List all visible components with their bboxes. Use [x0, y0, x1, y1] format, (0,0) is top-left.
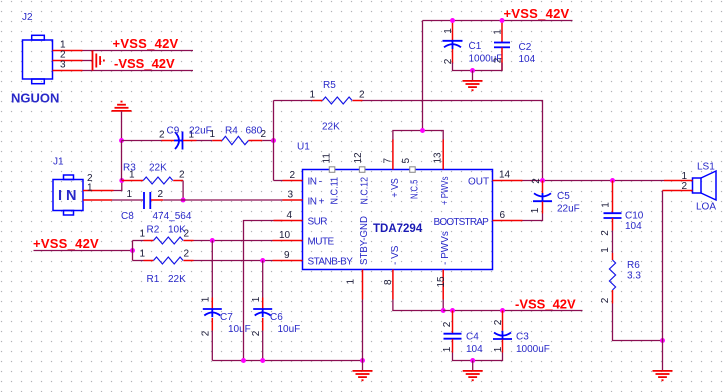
junction input ground node — [119, 138, 124, 143]
svg-text:J2: J2 — [22, 12, 33, 23]
svg-text:1: 1 — [493, 29, 504, 35]
resistor R6 lead 2 — [612, 290, 614, 304]
U1 pin 1 STBY-GND stub — [362, 270, 364, 300]
capacitor C1 lead 2 — [452, 49, 454, 64]
wire +VSS top rail — [423, 20, 573, 22]
svg-text:10: 10 — [279, 230, 291, 241]
U1 pin 15 -PWVs stub — [442, 270, 444, 300]
U1 pin 10 MUTE stub — [273, 240, 303, 242]
junction C4 top — [450, 308, 455, 313]
resistor R5 lead 2 — [353, 100, 363, 102]
svg-text:2: 2 — [201, 330, 212, 336]
wire +VSS down to supply pins — [422, 21, 424, 131]
svg-text:-VSS_42V: -VSS_42V — [114, 56, 175, 71]
speaker LS1 — [693, 171, 717, 200]
svg-text:C1: C1 — [469, 41, 482, 52]
wire R6 to bottom rail — [613, 304, 663, 341]
wire R4 to feedback node — [262, 140, 273, 142]
wire feedback node vertical — [273, 101, 275, 181]
resistor R6 lead 1 — [612, 253, 614, 260]
svg-text:C2: C2 — [519, 42, 532, 53]
svg-text:1: 1 — [210, 129, 216, 140]
capacitor C2 lead 1 — [501, 21, 503, 43]
capacitor C4 plates — [444, 334, 462, 339]
capacitor C10 lead 2 — [612, 218, 614, 231]
svg-text:C5: C5 — [557, 191, 570, 202]
capacitor C2 lead 2 — [501, 48, 503, 71]
wire ground stem C4 C3 — [472, 361, 474, 371]
resistor R4 zigzag — [222, 136, 248, 144]
U1 pin 6 BOOTSTRAP stub — [493, 220, 523, 222]
junction C2 top — [500, 18, 505, 23]
capacitor C3 plates — [493, 331, 512, 339]
resistor R5 zigzag — [323, 97, 353, 104]
LS1 pin 2 — [663, 190, 693, 192]
junction R1 R2 split — [130, 248, 135, 253]
svg-text:OUT: OUT — [468, 177, 489, 188]
resistor R4 lead 1 — [212, 140, 222, 142]
svg-text:IN -: IN - — [308, 177, 322, 188]
junction C1 top — [450, 18, 455, 23]
wire C6 bottom to rail — [262, 331, 264, 361]
J1 pin 1 — [83, 199, 112, 201]
wire pin 8 to -VSS rail — [393, 300, 443, 311]
svg-text:10uF: 10uF — [228, 324, 251, 335]
svg-text:+VSS_42V: +VSS_42V — [504, 6, 570, 21]
wire C1 C2 bottom rail — [453, 63, 503, 71]
svg-text:R6: R6 — [627, 260, 640, 271]
wire C7 column upper — [211, 241, 213, 298]
svg-text:3: 3 — [60, 60, 66, 71]
svg-text:1: 1 — [251, 296, 262, 302]
junction ground C4 C3 — [470, 358, 475, 363]
svg-text:2: 2 — [493, 57, 504, 63]
svg-text:104: 104 — [519, 54, 536, 65]
junction OUT / C10 — [610, 178, 615, 183]
wire C4 C3 bottom rail — [453, 353, 503, 361]
wire C6 column upper — [262, 261, 264, 298]
svg-text:13: 13 — [433, 152, 444, 164]
svg-text:14: 14 — [499, 170, 511, 181]
svg-text:10uF: 10uF — [278, 324, 301, 335]
svg-text:2: 2 — [179, 170, 185, 181]
U1 pin 9 STANB-BY stub — [273, 260, 303, 262]
svg-text:2: 2 — [251, 330, 262, 336]
svg-text:22K: 22K — [168, 274, 186, 285]
capacitor C4 lead 2 — [452, 311, 454, 334]
svg-text:1: 1 — [140, 229, 146, 240]
wire J1 pin2 up to R3 node — [114, 181, 122, 191]
capacitor C8 lead 2 — [151, 199, 163, 201]
capacitor C6 lead 1 — [262, 298, 264, 309]
wire OUT to speaker — [523, 180, 665, 182]
svg-text:1: 1 — [600, 247, 611, 253]
capacitor C3 lead 2 — [502, 311, 504, 331]
svg-text:12: 12 — [353, 152, 364, 164]
wire pin 15 to -VSS rail — [442, 300, 444, 311]
svg-text:2: 2 — [359, 90, 365, 101]
svg-text:10K: 10K — [168, 225, 186, 236]
U1 pin 12 N.C. square — [359, 167, 365, 173]
wire C10 to R6 — [612, 231, 614, 254]
wire R5 to OUT column — [363, 101, 543, 181]
resistor R1 lead 1 — [144, 260, 154, 262]
connector J2 — [23, 35, 53, 83]
junction speaker ground — [660, 338, 665, 343]
resistor R2 lead 1 — [144, 240, 154, 242]
svg-text:+ PWVs: + PWVs — [440, 177, 451, 206]
wire ground stem — [472, 71, 474, 81]
svg-text:MUTE: MUTE — [308, 237, 335, 248]
svg-text:680: 680 — [246, 126, 263, 137]
wire to R2 — [133, 240, 144, 242]
svg-text:1000uF: 1000uF — [516, 344, 550, 355]
svg-text:R2: R2 — [147, 225, 160, 236]
resistor R2 zigzag — [154, 237, 184, 244]
ground (rotated) at J2 pin 2 — [93, 51, 104, 71]
wire split vertical — [132, 241, 134, 261]
U1 pin 2 IN- stub — [283, 180, 303, 182]
capacitor C7 plates — [203, 309, 222, 317]
svg-text:22uF: 22uF — [189, 126, 212, 137]
wire J1 pin1 to C8 — [112, 199, 143, 201]
junction STANB-BY / C6 — [260, 258, 265, 263]
wire bottom ground rail left — [212, 360, 362, 362]
svg-text:2: 2 — [158, 189, 164, 200]
ground below speaker — [653, 371, 673, 380]
junction feedback node — [271, 138, 276, 143]
svg-text:2: 2 — [159, 130, 165, 141]
svg-text:1: 1 — [201, 296, 212, 302]
svg-text:+VSS_42V: +VSS_42V — [113, 36, 179, 51]
capacitor C5 lead 2 — [542, 181, 544, 194]
resistor R5 lead 1 — [313, 100, 323, 102]
svg-text:N.C.11: N.C.11 — [329, 177, 340, 205]
capacitor C7 lead 2 — [211, 318, 213, 331]
svg-text:- VS: - VS — [390, 245, 401, 265]
svg-text:2: 2 — [442, 321, 453, 327]
svg-text:R1: R1 — [147, 274, 160, 285]
resistor R1 zigzag — [154, 257, 184, 264]
junction OUT / C5 — [540, 178, 545, 183]
wire pin 1 column — [362, 300, 364, 371]
svg-text:104: 104 — [466, 344, 483, 355]
wire -VSS rail — [443, 310, 582, 312]
svg-text:4: 4 — [287, 210, 293, 221]
svg-text:SUR: SUR — [308, 217, 328, 228]
wire R2 to MUTE — [194, 240, 273, 242]
resistor R3 lead 1 — [122, 180, 143, 182]
svg-text:1: 1 — [601, 202, 612, 208]
svg-text:C9: C9 — [167, 126, 180, 137]
wire J2 pin1 to +VSS net — [83, 50, 194, 52]
svg-text:1: 1 — [493, 346, 504, 352]
svg-text:22K: 22K — [149, 163, 167, 174]
wire SUR down the column — [244, 221, 283, 361]
J2 pin 1 — [53, 50, 83, 52]
capacitor C4 lead 1 — [452, 339, 454, 353]
capacitor C9 lead 1 — [183, 140, 197, 142]
wire R5 row left — [274, 100, 313, 102]
ground below C1 C2 — [463, 81, 483, 90]
svg-text:1: 1 — [87, 183, 93, 194]
U1 pin 8 -VS stub — [392, 270, 394, 300]
capacitor C5 lead 1 — [542, 202, 544, 214]
J1 pin 2 — [83, 190, 114, 192]
svg-text:1: 1 — [530, 207, 541, 213]
svg-text:LS1: LS1 — [697, 162, 715, 173]
ground below C4 C3 — [463, 371, 483, 380]
svg-text:1: 1 — [442, 346, 453, 352]
wire ground stem down to node — [121, 111, 123, 141]
wire rail feeding pins 7 and 13 — [393, 131, 443, 141]
svg-text:2: 2 — [600, 297, 611, 303]
svg-text:6: 6 — [500, 210, 506, 221]
op-amp U1 TDA7294 body — [303, 170, 493, 270]
svg-text:NGUON: NGUON — [11, 91, 59, 106]
svg-text:104: 104 — [625, 221, 642, 232]
junction pin1 ground — [360, 358, 365, 363]
svg-text:IN +: IN + — [308, 197, 325, 208]
capacitor C7 lead 1 — [211, 298, 213, 309]
junction pin 15 rail — [441, 308, 446, 313]
svg-text:15: 15 — [436, 276, 447, 288]
svg-text:C6: C6 — [270, 312, 283, 323]
junction C6 rail — [260, 358, 265, 363]
svg-text:R4: R4 — [225, 126, 238, 137]
J2 pin 2 — [53, 60, 83, 62]
capacitor C1 plates — [443, 41, 463, 49]
wire R1 to STANB-BY — [194, 260, 273, 262]
resistor R4 lead 2 — [249, 140, 263, 142]
svg-text:-VSS_42V: -VSS_42V — [515, 296, 576, 311]
svg-text:8: 8 — [383, 279, 394, 285]
svg-text:N.C.5: N.C.5 — [410, 179, 421, 199]
capacitor C3 lead 1 — [502, 340, 504, 353]
svg-text:STANB-BY: STANB-BY — [308, 257, 354, 268]
U1 pin 3 IN+ stub — [283, 199, 303, 201]
resistor R3 lead 2 — [173, 180, 183, 182]
U1 pin 5 N.C. square — [410, 167, 416, 173]
capacitor C1 lead 1 — [452, 21, 454, 41]
svg-text:2: 2 — [600, 230, 611, 236]
svg-text:1: 1 — [443, 28, 454, 34]
svg-text:3.3: 3.3 — [627, 271, 641, 282]
svg-text:3: 3 — [288, 190, 294, 201]
svg-text:TDA7294: TDA7294 — [373, 223, 423, 235]
wire C8 to IN+ — [163, 199, 282, 201]
svg-text:11: 11 — [321, 153, 332, 164]
svg-text:2: 2 — [493, 319, 504, 325]
svg-text:9: 9 — [284, 250, 290, 261]
svg-text:BOOTSTRAP: BOOTSTRAP — [434, 217, 490, 228]
ground at STBY-GND — [353, 371, 373, 380]
capacitor C6 lead 2 — [262, 318, 264, 331]
svg-text:STBY-GND: STBY-GND — [359, 216, 370, 265]
resistor R1 lead 2 — [184, 260, 194, 262]
svg-text:2: 2 — [531, 178, 542, 184]
resistor R2 lead 2 — [184, 240, 194, 242]
J2 pin 3 — [53, 70, 83, 72]
capacitor C8 plates — [144, 192, 150, 209]
capacitor C5 plates — [533, 193, 552, 201]
capacitor C6 plates — [253, 309, 272, 317]
svg-text:+VSS_42V: +VSS_42V — [33, 236, 99, 251]
U1 pin 4 SUR stub — [274, 220, 303, 222]
svg-text:- PWVs: - PWVs — [440, 231, 451, 265]
wire ground node to C9 — [122, 140, 162, 142]
junction MUTE / C7 — [210, 238, 215, 243]
wire C5 to BOOTSTRAP — [523, 214, 543, 221]
U1 pin 13 +PWVs stub — [442, 140, 444, 170]
svg-text:R3: R3 — [123, 163, 136, 174]
svg-text:2: 2 — [184, 249, 190, 260]
svg-text:IN: IN — [58, 188, 81, 204]
connector J1 — [53, 175, 83, 215]
svg-text:C7: C7 — [220, 312, 233, 323]
svg-text:1: 1 — [310, 90, 316, 101]
U1 pin 14 OUT stub — [493, 180, 523, 182]
svg-text:+ VS: + VS — [390, 178, 401, 198]
svg-text:22uF: 22uF — [557, 204, 580, 215]
svg-text:5: 5 — [401, 158, 412, 164]
resistor R3 zigzag — [143, 177, 173, 184]
junction SUR rail — [241, 358, 246, 363]
svg-text:C8: C8 — [121, 211, 134, 222]
wire ground column to R3 node — [121, 141, 123, 181]
capacitor C9 plates — [174, 132, 183, 150]
svg-text:2: 2 — [682, 181, 688, 192]
svg-text:1: 1 — [140, 249, 146, 260]
wire speaker pin2 column — [662, 191, 664, 371]
wire C9 to R4 — [197, 140, 213, 142]
wire C7 bottom to rail — [211, 331, 213, 361]
svg-text:2: 2 — [290, 170, 296, 181]
svg-text:R5: R5 — [323, 80, 336, 91]
wire to R1 — [133, 260, 144, 262]
svg-text:C10: C10 — [625, 211, 644, 222]
capacitor C2 plates — [494, 43, 510, 48]
junction IN+ node — [181, 198, 186, 203]
svg-text:C3: C3 — [516, 332, 529, 343]
svg-text:U1: U1 — [297, 142, 310, 153]
ground (inverted) above input node — [112, 102, 132, 111]
U1 pin 11 N.C. square — [329, 167, 335, 173]
capacitor C10 plates — [604, 213, 622, 218]
wire R3 down to IN+ node — [182, 181, 184, 201]
junction ground C1 C2 — [470, 68, 475, 73]
svg-text:474_564: 474_564 — [153, 211, 192, 222]
svg-text:1: 1 — [346, 279, 357, 285]
resistor R6 zigzag — [609, 260, 615, 290]
svg-text:7: 7 — [382, 158, 393, 164]
svg-text:22K: 22K — [322, 122, 340, 133]
wire C10 column top — [612, 181, 614, 214]
wire J2 pin2 to ground — [83, 60, 93, 62]
junction on pin7/13 rail — [420, 128, 425, 133]
svg-text:N.C.12: N.C.12 — [359, 177, 370, 205]
junction R3 input node — [119, 178, 124, 183]
wire feedback node to IN- — [274, 180, 283, 182]
U1 pin 7 +VS stub — [392, 140, 394, 170]
capacitor C9 lead 2 — [162, 140, 175, 142]
wire J2 pin3 to -VSS net — [83, 70, 194, 72]
svg-text:C4: C4 — [466, 332, 479, 343]
wire +VSS to R1 R2 — [34, 250, 133, 252]
svg-text:1: 1 — [127, 189, 133, 200]
svg-text:LOA: LOA — [696, 202, 716, 213]
svg-text:J1: J1 — [53, 157, 64, 168]
LS1 pin 1 — [664, 180, 693, 182]
junction C3 top — [500, 308, 505, 313]
